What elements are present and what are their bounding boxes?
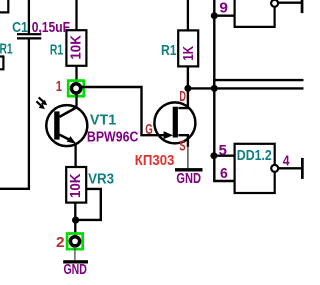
gate DD1.1 body (cut at top) — [235, 0, 275, 27]
svg-text:10K: 10K — [68, 35, 84, 60]
upper branch wire to right edge — [214, 80, 303, 88]
ground bar (node 2) — [63, 260, 88, 263]
pin 4 wire — [279, 167, 302, 169]
node 2 terminal circle — [70, 237, 79, 246]
svg-text:1: 1 — [56, 79, 62, 95]
terminator bar — [301, 0, 304, 13]
wire VT1 emitter down to VR3 — [74, 145, 76, 168]
wire node1 down to VT1 — [75, 93, 77, 109]
wire top to R1 10K — [75, 0, 77, 30]
junction dot at drain — [184, 85, 191, 92]
wire top to capacitor C1 — [28, 0, 30, 33]
partial resistor at left edge (top) — [0, 0, 8, 12]
transistor VT2 KP303 circle — [154, 102, 195, 143]
svg-text:10K: 10K — [68, 173, 84, 198]
junction dot pin 9 — [211, 12, 218, 19]
VT1 collector line — [59, 107, 77, 117]
DD1.2 output bubble — [271, 165, 278, 172]
pin 5 wire — [214, 154, 234, 156]
svg-text:9: 9 — [219, 0, 228, 16]
svg-text:0,15uF: 0,15uF — [32, 20, 71, 36]
resistor VR3 10K — [66, 167, 86, 203]
light arrow 2 — [36, 101, 41, 105]
svg-text:КП303: КП303 — [135, 153, 175, 169]
terminator bar — [301, 158, 304, 179]
svg-text:BPW96C: BPW96C — [87, 129, 139, 145]
svg-text:5: 5 — [219, 143, 227, 159]
VT1 base bar — [54, 111, 59, 139]
thin wire node 2 to ground — [74, 246, 76, 260]
svg-text:VT1: VT1 — [90, 113, 116, 129]
VR3 wiper wire — [78, 189, 101, 220]
svg-text:6: 6 — [220, 166, 228, 182]
svg-text:DD1.2: DD1.2 — [237, 148, 272, 164]
svg-text:S: S — [179, 139, 186, 155]
wire node1 right and down to gate G — [80, 87, 165, 135]
gate DD1.2 body — [235, 144, 275, 193]
partial resistor at left edge (middle) — [0, 57, 3, 70]
wire R1 1K down to drain — [178, 66, 188, 108]
phototransistor VT1 circle — [46, 105, 87, 146]
capacitor C1 plates — [17, 33, 41, 35]
DD1.1 output bubble — [271, 0, 278, 7]
resistor R1 1K — [178, 30, 198, 66]
VT1 emitter line with arrow — [59, 135, 70, 140]
source inner wire down to ground — [178, 135, 188, 147]
pin 9 wire — [214, 14, 234, 16]
svg-text:GND: GND — [64, 262, 87, 278]
node 2 green pad — [67, 234, 83, 250]
svg-text:G: G — [145, 122, 153, 138]
svg-text:GND: GND — [176, 171, 201, 187]
node 1 green pad — [68, 81, 84, 97]
wire VR3 down to node 2 — [74, 203, 76, 236]
vertical bus wire to pin 6 — [214, 0, 234, 181]
light arrow 1 — [39, 97, 44, 101]
node 1 terminal circle — [72, 84, 81, 93]
junction dot — [72, 217, 79, 224]
resistor R1 10K — [66, 30, 86, 66]
svg-text:R1: R1 — [50, 43, 63, 59]
wire capacitor down and left to edge — [0, 39, 29, 188]
gate arrowhead — [164, 131, 174, 139]
channel bar — [173, 107, 178, 138]
wire top to R1 1K — [187, 0, 189, 30]
svg-text:VR3: VR3 — [88, 171, 114, 187]
ground bar (source) — [175, 168, 203, 171]
svg-text:4: 4 — [283, 153, 290, 169]
junction dot pin 5 — [210, 152, 217, 159]
junction dot at bus — [211, 85, 218, 92]
DD1.1 output wire — [278, 2, 301, 4]
drain net horizontal wire — [188, 87, 304, 89]
svg-text:2: 2 — [56, 235, 65, 251]
wire R1 to node 1 — [75, 66, 77, 82]
svg-text:R1: R1 — [0, 41, 13, 57]
svg-text:1K: 1K — [181, 46, 197, 61]
svg-text:R1: R1 — [161, 43, 177, 59]
svg-text:C1: C1 — [12, 20, 28, 36]
